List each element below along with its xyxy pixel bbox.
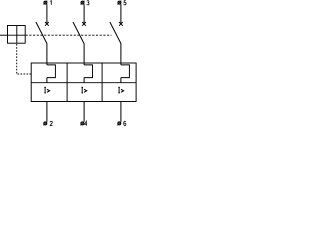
wire top pole 3	[120, 4, 122, 24]
mechanical linkage dashed horizontal	[26, 34, 112, 36]
wire mid pole 3	[120, 43, 122, 65]
thermal overload bump pole 2	[84, 65, 92, 78]
mechanism box inner vertical line	[16, 26, 18, 44]
terminal circle 3	[81, 1, 84, 4]
wire to divider pole 1	[46, 78, 48, 83]
overload/trip block outline	[31, 63, 136, 102]
block column divider 1	[66, 63, 68, 102]
pin label 5	[124, 1, 126, 5]
terminal slash 5	[118, 1, 122, 5]
terminal circle 5	[118, 1, 121, 4]
thermal overload bump pole 1	[47, 65, 56, 78]
switch blade pole 1	[36, 22, 47, 44]
wire mid pole 1	[46, 43, 48, 65]
terminal slash 4	[81, 122, 85, 126]
breaker contact X pole 1	[45, 22, 49, 26]
breaker contact X pole 2	[82, 22, 86, 26]
operating mechanism box	[8, 26, 26, 44]
wire bottom pole 1	[46, 102, 48, 122]
terminal slash 6	[117, 122, 121, 126]
magnetic trip I> symbol pole 2	[81, 87, 86, 93]
terminal circle 1	[44, 1, 47, 4]
thermal overload bump pole 3	[121, 65, 129, 78]
wire top pole 2	[83, 4, 85, 24]
pin label 4	[85, 121, 87, 125]
terminal circle 4	[81, 122, 84, 125]
pin label 2	[50, 121, 52, 125]
terminal circle 2	[44, 122, 47, 125]
terminal slash 1	[44, 1, 48, 5]
pin label 3	[87, 1, 89, 5]
magnetic trip I> symbol pole 3	[118, 87, 123, 93]
terminal slash 3	[81, 1, 85, 5]
wire bottom pole 2	[83, 102, 85, 122]
mechanical linkage dashed horizontal to overload block	[18, 73, 32, 75]
wire bottom pole 3	[120, 102, 122, 122]
pin label 1	[50, 1, 51, 5]
left stub wire	[0, 34, 8, 36]
pin label 6	[124, 121, 126, 125]
switch blade pole 3	[110, 22, 121, 44]
block column divider 2	[101, 63, 103, 102]
block horizontal divider	[31, 82, 136, 84]
wire to divider pole 2	[83, 78, 85, 83]
mechanical linkage dashed vertical	[16, 44, 18, 74]
wire top pole 1	[46, 4, 48, 24]
terminal slash 2	[43, 122, 47, 126]
terminal circle 6	[118, 122, 121, 125]
switch blade pole 2	[73, 22, 84, 44]
wire mid pole 2	[83, 43, 85, 65]
mechanism box inner horizontal line	[8, 34, 26, 36]
wire to divider pole 3	[120, 78, 122, 83]
breaker contact X pole 3	[119, 22, 123, 26]
magnetic trip I> symbol pole 1	[44, 87, 49, 93]
